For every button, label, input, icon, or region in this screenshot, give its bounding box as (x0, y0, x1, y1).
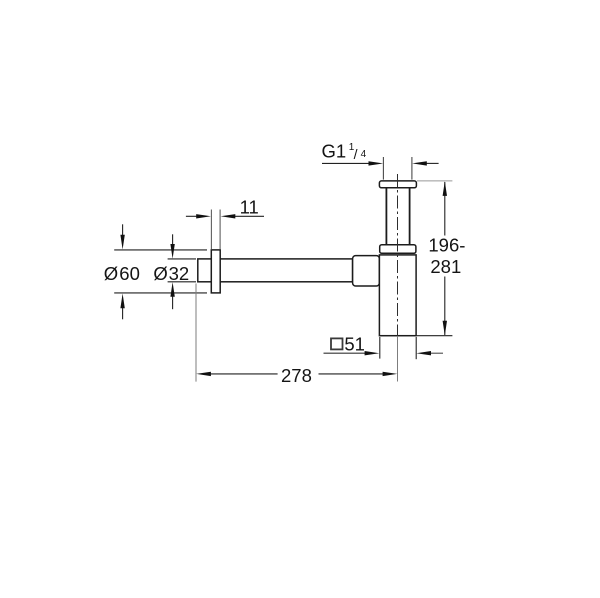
svg-text:281: 281 (430, 256, 461, 277)
196-281 text (428, 235, 465, 277)
horizontal wall tube (198, 259, 353, 282)
svg-text:/: / (354, 146, 358, 162)
278 left extension line (195, 284, 197, 382)
11 dimension line left (186, 215, 198, 217)
diameter 60 up arrow (120, 294, 124, 309)
svg-text:11: 11 (240, 197, 259, 218)
G1 left arrow (369, 161, 384, 165)
wall flange (211, 250, 220, 293)
196-281 up arrow (443, 181, 447, 196)
square 51 symbol (331, 338, 343, 349)
top flange (379, 181, 416, 188)
G1 extension line right (411, 157, 413, 180)
svg-text:32: 32 (169, 263, 190, 284)
diameter 32 dimension upper (172, 234, 174, 247)
278 left arrow (196, 372, 211, 376)
square 51 dimension line right (429, 352, 443, 354)
svg-text:G1: G1 (322, 141, 347, 162)
trap body (379, 255, 416, 336)
196-281 down arrow (443, 321, 447, 336)
svg-text:278: 278 (281, 365, 312, 386)
vertical center line (397, 174, 399, 336)
G1 dimension line right (424, 162, 439, 164)
svg-text:196-: 196- (428, 235, 465, 256)
square 51 right arrow (416, 351, 431, 355)
278 right arrow (383, 372, 398, 376)
11 right arrow (221, 214, 236, 218)
196-281 dimension line (444, 182, 446, 335)
svg-text:4: 4 (361, 149, 367, 160)
G1 extension line left (382, 157, 384, 180)
diameter 60 dimension upper (122, 224, 124, 238)
diameter 32 extension lines (168, 259, 196, 282)
svg-text:Ø: Ø (153, 263, 167, 284)
vertical inlet pipe (386, 188, 409, 245)
svg-text:51: 51 (344, 333, 365, 354)
square 51 left arrow (365, 351, 380, 355)
square 51 dimension line left (324, 352, 368, 354)
G1 1/4 label (322, 141, 367, 162)
11 dimension line right (233, 215, 264, 217)
diameter 32 down arrow (170, 244, 174, 259)
inlet connector (353, 256, 380, 286)
diameter 32 dimension lower (172, 295, 174, 309)
196-281 bottom extension line (416, 335, 452, 337)
G1 dimension line left (322, 162, 371, 164)
G1 right arrow (412, 161, 427, 165)
union nut (380, 245, 416, 254)
11 left arrow (196, 214, 211, 218)
11 extension lines (211, 210, 220, 250)
square 51 extension lines (380, 337, 416, 359)
svg-text:60: 60 (119, 263, 140, 284)
center line extension below body (397, 336, 399, 382)
diameter 60 dimension lower (122, 306, 124, 319)
196-281 top extension line (417, 180, 452, 182)
278 dimension line (208, 373, 386, 375)
diameter 32 up arrow (170, 282, 174, 297)
diameter 60 extension lines (114, 250, 207, 293)
svg-text:Ø: Ø (104, 263, 118, 284)
diameter 60 down arrow (120, 235, 124, 250)
